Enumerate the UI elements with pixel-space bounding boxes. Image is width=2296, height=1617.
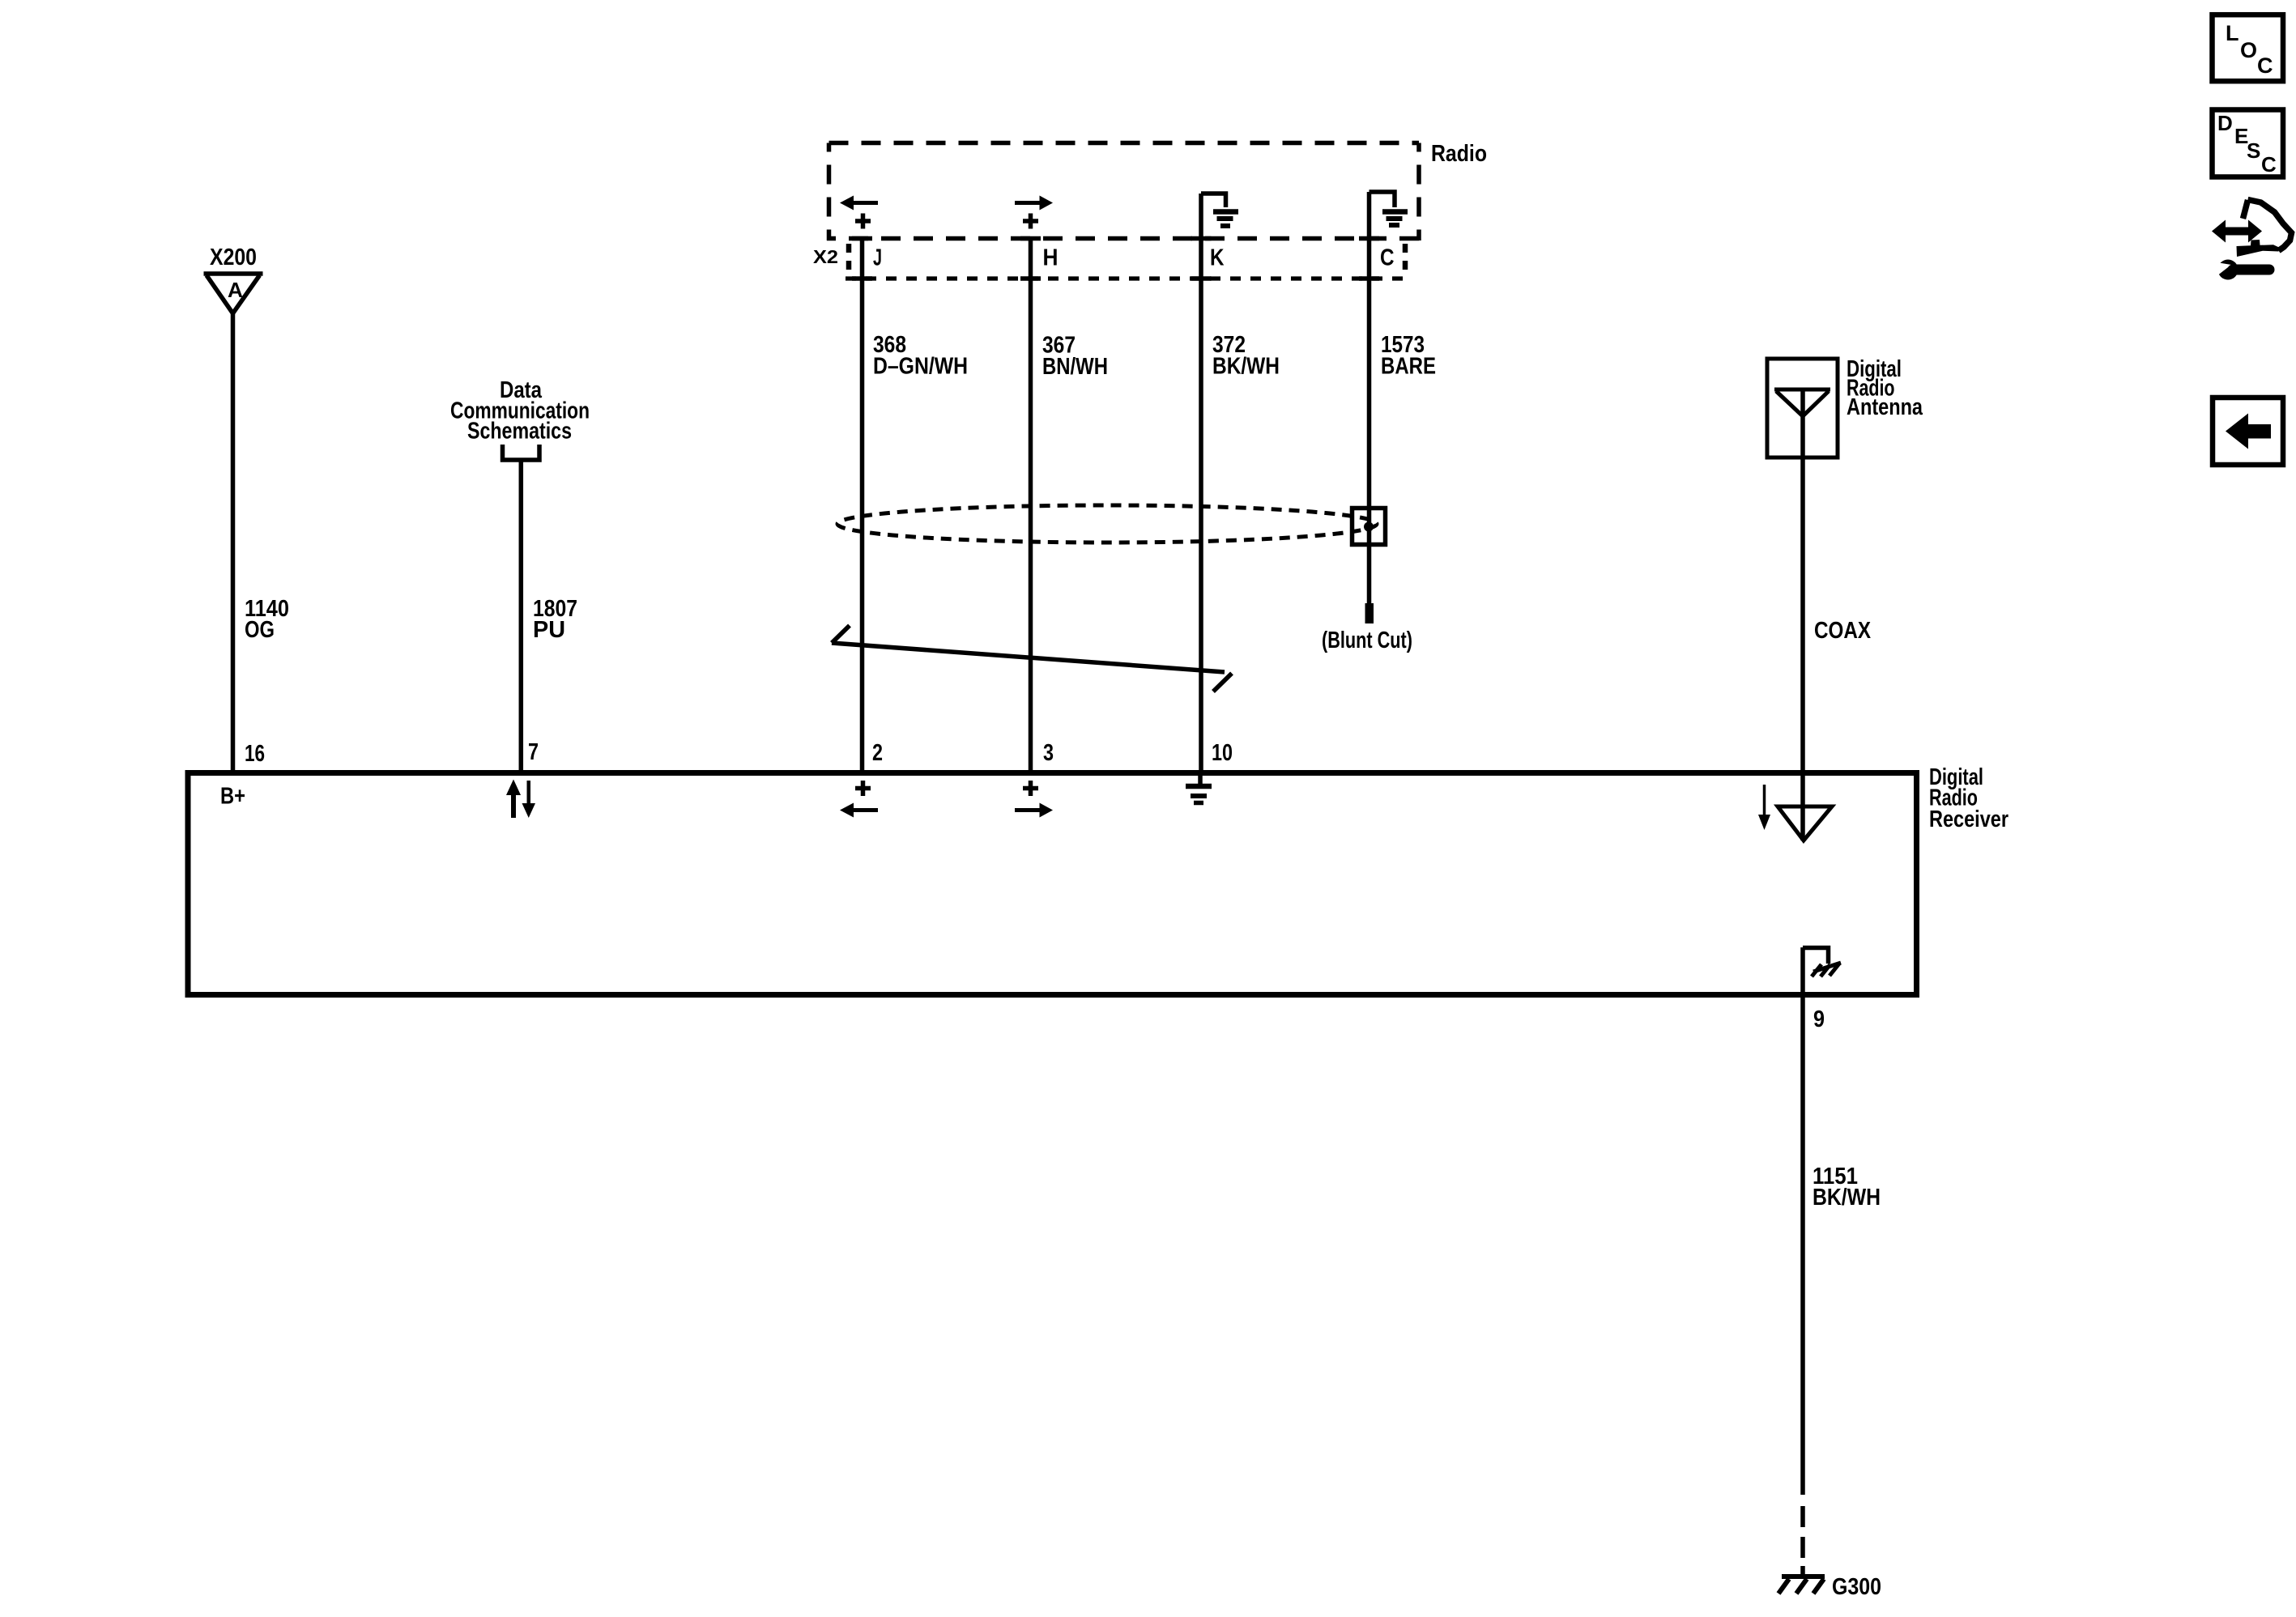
wire 368 D-GN/WH (pin J to receiver pin 2) <box>860 236 865 770</box>
icon LOC box <box>2213 15 2284 81</box>
Digital Radio Antenna box <box>1767 359 1838 457</box>
wire 1573 BARE (pin C to splice) <box>1367 192 1372 603</box>
svg-text:PU: PU <box>533 617 565 643</box>
svg-text:O: O <box>2240 38 2257 62</box>
svg-text:(Blunt Cut): (Blunt Cut) <box>1322 628 1412 653</box>
svg-text:J: J <box>873 245 882 271</box>
svg-text:C: C <box>2257 53 2273 78</box>
svg-text:BARE: BARE <box>1381 354 1436 380</box>
tick H bottom <box>1020 276 1041 281</box>
tick K top <box>1191 236 1212 241</box>
wire 1807 PU to receiver pin 7 <box>519 462 524 770</box>
svg-text:Schematics: Schematics <box>467 419 572 445</box>
plus symbol at receiver pin 2 <box>855 781 871 796</box>
tick C top <box>1359 236 1379 241</box>
svg-text:7: 7 <box>528 739 539 765</box>
off-page bracket symbol <box>503 445 540 460</box>
svg-text:S: S <box>2247 138 2260 163</box>
ground symbol at radio pin C <box>1382 212 1408 226</box>
tick J top <box>852 236 872 241</box>
svg-text:G300: G300 <box>1832 1574 1881 1600</box>
svg-text:OG: OG <box>245 617 275 643</box>
left arrow symbol at radio pin J <box>840 196 878 211</box>
connector X2 dashed band <box>846 276 1408 280</box>
left arrow symbol at receiver pin 2 <box>840 803 878 818</box>
svg-text:C: C <box>1380 245 1395 271</box>
up/down arrows at receiver pin 7 <box>506 780 535 819</box>
tick J bottom <box>852 276 872 281</box>
Radio dashed box <box>827 143 1421 241</box>
ground hook at radio pin C <box>1370 192 1395 207</box>
svg-text:3: 3 <box>1043 740 1054 766</box>
tick K bottom <box>1191 276 1212 281</box>
svg-text:K: K <box>1210 245 1225 271</box>
wire 372 BK/WH (pin K to receiver pin 10) <box>1199 194 1203 770</box>
plus symbol at radio pin H <box>1023 214 1038 229</box>
svg-text:D–GN/WH: D–GN/WH <box>873 354 968 380</box>
wire 1151 BK/WH from pin 9 <box>1800 947 1805 1495</box>
svg-text:H: H <box>1043 245 1059 271</box>
shield termination box on wire C <box>1352 509 1386 545</box>
Digital Radio Receiver box <box>188 773 1917 995</box>
svg-text:2: 2 <box>872 740 883 766</box>
svg-text:BK/WH: BK/WH <box>1212 354 1280 380</box>
receiving antenna triangle inside receiver <box>1778 806 1832 840</box>
svg-text:X200: X200 <box>210 245 257 270</box>
svg-text:C: C <box>2261 152 2277 177</box>
svg-text:L: L <box>2226 21 2239 45</box>
COAX wire from antenna to receiver <box>1800 389 1805 840</box>
antenna symbol inside box <box>1774 389 1830 416</box>
svg-text:Radio: Radio <box>1431 141 1487 167</box>
down arrow at receiver coax input <box>1763 785 1766 816</box>
icon DESC box <box>2213 110 2284 177</box>
dashed wire continuation to G300 <box>1800 1506 1805 1576</box>
wire 367 BN/WH (pin H to receiver pin 3) <box>1029 236 1033 770</box>
chassis ground symbol at receiver pin 9 <box>1803 948 1829 964</box>
svg-text:A: A <box>228 278 243 302</box>
svg-text:Receiver: Receiver <box>1929 806 2008 832</box>
twisted pair dashed ellipse <box>837 505 1377 543</box>
svg-text:B+: B+ <box>220 784 245 810</box>
antenna X200 symbol <box>204 274 263 313</box>
svg-text:9: 9 <box>1813 1006 1825 1032</box>
svg-text:BK/WH: BK/WH <box>1813 1185 1881 1211</box>
right arrow symbol at radio pin H <box>1015 196 1053 211</box>
ground hook at radio pin K <box>1201 194 1226 207</box>
icon back arrow box <box>2213 398 2283 465</box>
svg-text:D: D <box>2217 111 2233 135</box>
plus symbol at receiver pin 3 <box>1023 781 1038 796</box>
wire 1140 OG from X200 to receiver pin 16 <box>231 313 236 770</box>
ground G300 symbol <box>1778 1577 1825 1594</box>
ground symbol at receiver pin 10 <box>1198 776 1203 784</box>
icon wiring/repair (double arrow with outline and wrench) <box>2212 200 2292 280</box>
blunt cut bar <box>1365 603 1374 623</box>
plus symbol at radio pin J <box>855 214 871 229</box>
svg-text:X2: X2 <box>813 246 838 267</box>
svg-text:COAX: COAX <box>1814 618 1872 644</box>
svg-text:10: 10 <box>1212 740 1233 766</box>
svg-text:Antenna: Antenna <box>1847 394 1923 420</box>
tick H top <box>1020 236 1041 241</box>
right arrow symbol at receiver pin 3 <box>1015 803 1053 818</box>
harness crossing slash line <box>832 626 1232 692</box>
svg-text:16: 16 <box>245 741 265 767</box>
svg-text:BN/WH: BN/WH <box>1042 354 1108 380</box>
tick C bottom <box>1359 276 1379 281</box>
ground symbol at radio pin K <box>1213 212 1238 227</box>
splice dot <box>1364 522 1374 532</box>
